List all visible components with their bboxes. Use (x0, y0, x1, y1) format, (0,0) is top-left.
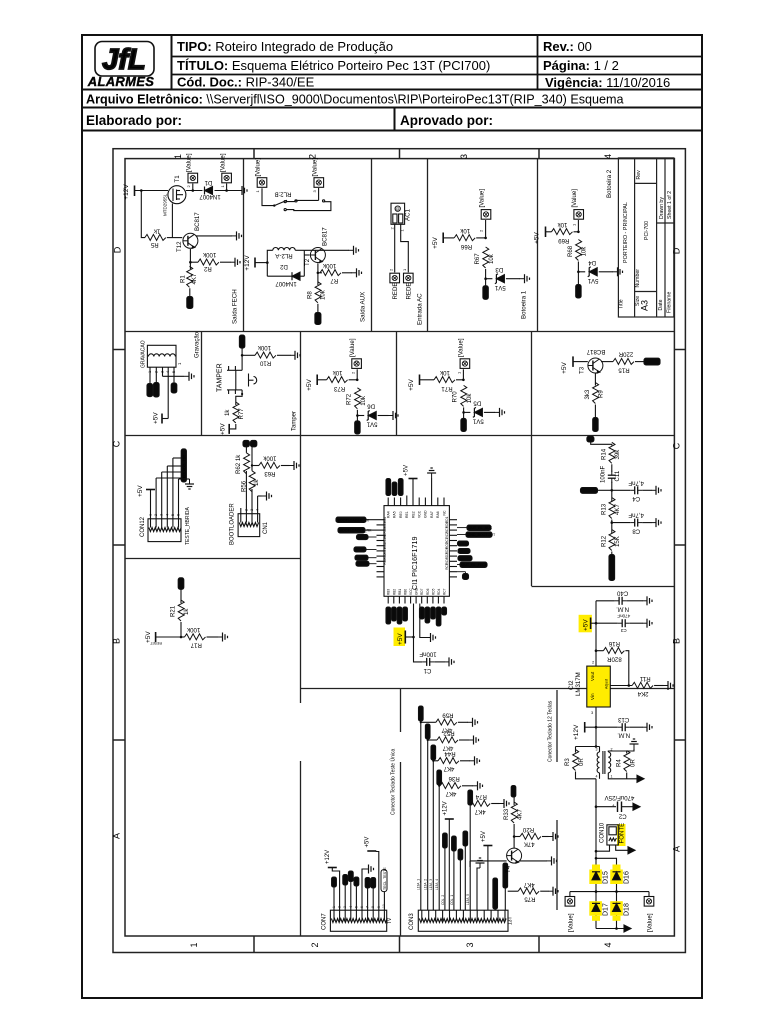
wire R8 to net label (317, 304, 319, 313)
wire emitter to ground (520, 860, 548, 862)
svg-text:R59: R59 (442, 712, 454, 719)
svg-text:BOOTLOADER_TX: BOOTLOADER_TX (338, 518, 370, 522)
svg-text:+5V: +5V (481, 831, 487, 842)
connector CON12 (140, 516, 181, 541)
left pin stubs (377, 520, 385, 577)
svg-text:[Value]: [Value] (312, 158, 319, 177)
zone numbers top (112, 154, 682, 948)
svg-text:100nF: 100nF (600, 465, 607, 483)
power +5V flag (561, 356, 573, 373)
transformer T (596, 747, 638, 779)
schematic title block (rotated A3 sheet) (618, 158, 673, 317)
connector CON3 (409, 910, 514, 931)
pin9 wire to +5V (365, 837, 379, 911)
svg-text:0R: 0R (578, 758, 585, 766)
svg-text:R77: R77 (238, 408, 245, 420)
right pin names (445, 516, 449, 569)
svg-text:TV: TV (387, 917, 393, 924)
svg-text:Adjust: Adjust (605, 679, 609, 689)
svg-text:C1: C1 (423, 667, 431, 674)
svg-text:2: 2 (154, 514, 158, 516)
svg-text:[Value]: [Value] (255, 158, 262, 177)
bottom pin stubs (388, 596, 444, 603)
net arrow (624, 925, 631, 932)
connector pin [Value] (255, 158, 267, 193)
svg-text:470uF/25V: 470uF/25V (604, 794, 635, 801)
svg-text:1k: 1k (183, 608, 190, 615)
svg-text:R17: R17 (190, 642, 202, 649)
svg-text:10k: 10k (360, 395, 367, 406)
svg-text:R68: R68 (567, 245, 574, 257)
svg-text:Cód. Doc.: RIP-340/EE: Cód. Doc.: RIP-340/EE (177, 75, 315, 90)
svg-text:RD5: RD5 (431, 588, 435, 595)
svg-text:R21: R21 (170, 605, 177, 617)
outer document border (82, 35, 702, 998)
resistor R2 100k (198, 251, 219, 272)
net label small (243, 440, 249, 446)
wire to junction (476, 237, 485, 239)
svg-text:CN1: CN1 (263, 521, 269, 534)
svg-text:REDE: REDE (392, 283, 399, 300)
ground (290, 351, 300, 360)
svg-text:R33: R33 (503, 808, 510, 820)
svg-text:OUT_RL_AUX: OUT_RL_AUX (469, 526, 493, 530)
svg-text:RB3: RB3 (383, 558, 387, 564)
svg-text:TECLADO_TST: TECLADO_TST (182, 454, 186, 481)
svg-text:RA6: RA6 (436, 511, 440, 518)
svg-text:R74: R74 (475, 793, 487, 800)
left pin names (383, 517, 387, 565)
wire coil to T2 base (303, 250, 305, 276)
resistor R67 10k (474, 247, 495, 268)
pin stubs (240, 508, 242, 514)
svg-text:LM317M: LM317M (575, 672, 582, 696)
svg-text:B: B (672, 638, 682, 644)
svg-text:+12V: +12V (244, 255, 251, 271)
resistor R56 1k (241, 471, 260, 492)
resistor R59 4K7 (420, 712, 478, 734)
svg-text:R11: R11 (639, 675, 650, 682)
relay coil RL2-A (267, 248, 304, 277)
diode D16 (highlighted) (610, 865, 630, 885)
wire pin4 to ground (258, 495, 262, 497)
svg-text:4,7nF: 4,7nF (628, 512, 644, 519)
svg-text:T3: T3 (579, 366, 586, 374)
svg-text:3: 3 (465, 942, 475, 947)
connector pin [Value] (349, 338, 361, 368)
svg-text:Botoeira 1: Botoeira 1 (521, 290, 528, 319)
svg-text:RD6: RD6 (426, 588, 430, 595)
capacitor C3 470nF (596, 613, 630, 633)
svg-text:100k: 100k (257, 344, 271, 351)
svg-text:JfL: JfL (102, 44, 146, 76)
wire collector rail to ground (304, 249, 349, 251)
ground (520, 274, 530, 283)
zener D5 5V1 (472, 400, 483, 425)
power +5V yellow highlight flag (394, 628, 406, 647)
svg-text:R1: R1 (179, 275, 186, 283)
resistor R52 4K7 (427, 729, 479, 751)
svg-text:R2: R2 (203, 265, 211, 272)
svg-text:FONTE: FONTE (619, 823, 626, 844)
svg-text:4: 4 (603, 942, 613, 947)
svg-text:B: B (112, 638, 122, 644)
svg-text:R10: R10 (259, 360, 271, 367)
svg-text:D5: D5 (473, 400, 481, 407)
svg-text:4K7: 4K7 (445, 790, 456, 797)
connector pin [Value] (312, 158, 324, 193)
wire pin1 + net label (417, 706, 424, 910)
svg-text:+5V: +5V (306, 378, 313, 390)
power +5V yellow flag (579, 615, 596, 633)
svg-text:D4: D4 (588, 259, 596, 266)
net label BOOTLOADER_TX (336, 517, 377, 522)
ground (230, 258, 240, 267)
svg-text:TAMPER: TAMPER (217, 363, 224, 392)
svg-text:Aprovado por:: Aprovado por: (400, 113, 493, 128)
svg-text:CON12: CON12 (140, 516, 146, 537)
wire main rail (595, 601, 597, 666)
svg-text:R15: R15 (618, 367, 630, 374)
connector pin REDE (402, 268, 413, 300)
svg-text:RB3: RB3 (387, 589, 391, 595)
svg-text:+5V: +5V (403, 464, 410, 476)
svg-text:R71: R71 (441, 385, 453, 392)
svg-text:Conector Teclado 12 Teclas: Conector Teclado 12 Teclas (548, 700, 554, 762)
zone ticks right (674, 349, 685, 351)
power +5V flag (306, 375, 317, 391)
ground (444, 657, 454, 666)
ground (651, 518, 661, 527)
wire pin3 to ground (163, 375, 185, 377)
svg-text:Sheet 1 of 2: Sheet 1 of 2 (667, 191, 673, 219)
pin1 wire + net label (332, 877, 337, 910)
svg-text:6: 6 (177, 514, 181, 516)
svg-text:1N4007: 1N4007 (275, 280, 297, 287)
net label (461, 418, 466, 431)
svg-text:D6: D6 (367, 403, 375, 410)
svg-text:RB1: RB1 (398, 589, 402, 595)
svg-text:2: 2 (154, 371, 158, 373)
resistor R9 3k3 (584, 383, 605, 404)
resistor R7 100k (320, 262, 341, 284)
resistor R66 10k (454, 227, 475, 250)
connector pin [Value] (479, 189, 491, 220)
svg-text:R5: R5 (150, 241, 158, 248)
svg-text:4K7: 4K7 (191, 273, 198, 284)
net label F (587, 436, 594, 442)
resistor R17 100k (185, 626, 206, 649)
svg-text:R4: R4 (615, 759, 622, 767)
ground (184, 372, 194, 381)
resistor R14 39k (600, 442, 621, 463)
svg-text:C4: C4 (632, 495, 640, 502)
svg-text:C2: C2 (618, 813, 626, 820)
zener D4 5V1 (587, 259, 598, 284)
svg-text:[Value]: [Value] (646, 913, 653, 932)
wire pin2 + net label (424, 724, 431, 910)
diode D15 (highlighted) (589, 865, 609, 885)
wire collector to ground (196, 235, 232, 237)
resistor R62 1k (235, 453, 249, 474)
svg-text:100k: 100k (322, 262, 336, 269)
capacitor C8 4,7nF (628, 512, 644, 535)
diode D2 1N4007 (267, 263, 304, 287)
resistor R69 10k (552, 221, 573, 244)
svg-text:820R: 820R (607, 656, 622, 663)
pin numbers (332, 904, 386, 908)
wire +5V to VCC rail (405, 636, 413, 638)
svg-text:2K4: 2K4 (637, 690, 648, 697)
svg-text:100nF: 100nF (419, 651, 437, 658)
svg-text:[Value]: [Value] (571, 189, 578, 208)
net label MISO (147, 384, 153, 397)
net label top (178, 578, 184, 590)
resistor R33 4K7 (503, 797, 524, 848)
resistor R68 10k (567, 240, 588, 261)
svg-text:TECL_TESTE: TECL_TESTE (383, 867, 387, 890)
bridge rails (595, 851, 597, 928)
svg-text:R69: R69 (558, 237, 570, 244)
svg-text:OUT_RL_FECH: OUT_RL_FECH (462, 563, 488, 567)
svg-text:1k: 1k (253, 479, 260, 486)
svg-text:+5V: +5V (137, 485, 144, 497)
relay contacts RL2:B (262, 188, 331, 211)
svg-text:100k: 100k (186, 626, 200, 633)
resistor R15 220R (613, 350, 634, 373)
net label BOT1 (483, 286, 488, 300)
svg-text:Tamper: Tamper (292, 411, 298, 431)
ground (349, 246, 359, 255)
svg-text:GND: GND (424, 510, 428, 518)
svg-text:RB2: RB2 (392, 589, 396, 595)
pin numbers (148, 371, 176, 373)
svg-text:4K7: 4K7 (443, 765, 454, 772)
svg-text:R67: R67 (474, 253, 481, 265)
wire VCC rail (414, 604, 423, 662)
svg-text:[Value]: [Value] (349, 338, 356, 357)
bottom net labels group B (420, 607, 425, 619)
svg-text:RE2: RE2 (411, 511, 415, 518)
left net labels (336, 517, 377, 566)
svg-text:R44: R44 (444, 750, 456, 757)
wire emitter node (317, 263, 319, 285)
svg-text:D18: D18 (623, 903, 630, 916)
svg-text:+5V: +5V (534, 231, 541, 243)
wire (180, 589, 182, 603)
svg-text:A: A (112, 833, 122, 839)
resistor R13 4K7 (600, 498, 621, 519)
svg-text:10k: 10k (581, 246, 588, 257)
connector pin [Value] left (565, 892, 575, 932)
net label (457, 562, 488, 567)
net label BUZZER (644, 358, 660, 365)
net label tall (609, 555, 615, 581)
net label boxes above (386, 479, 391, 496)
svg-text:5V1: 5V1 (472, 418, 483, 425)
wires from connector pins (149, 367, 151, 383)
svg-text:[Value]: [Value] (458, 338, 465, 357)
wire pin10 + net label (463, 831, 468, 910)
wires to label (156, 477, 181, 479)
svg-text:PCI-700: PCI-700 (644, 221, 650, 240)
wire AC1 pin1 to REDE (401, 224, 409, 272)
connector AC1 (390, 203, 412, 231)
svg-text:10k: 10k (320, 289, 327, 300)
svg-text:L13A_1: L13A_1 (417, 879, 421, 890)
top pin names (387, 510, 447, 518)
power +5V flag (408, 375, 419, 391)
zener D3 5V1 (494, 266, 505, 291)
net label GND_BOOT (457, 532, 496, 537)
wire junction to connector (485, 220, 487, 238)
svg-text:VCC: VCC (409, 588, 413, 595)
wire MOSFET gate down (171, 204, 173, 238)
svg-text:RA7: RA7 (430, 511, 434, 518)
svg-text:Arquivo Eletrônico: \\Serverjf: Arquivo Eletrônico: \\Serverjfl\ISO_9000… (86, 93, 624, 107)
resistor R12 15K (600, 530, 621, 551)
svg-text:R52: R52 (443, 729, 455, 736)
ground (426, 633, 436, 642)
wire base left (470, 860, 507, 862)
svg-text:C: C (112, 440, 122, 447)
svg-text:G: G (395, 206, 400, 210)
svg-text:Conector Teclado Teste Única: Conector Teclado Teste Única (390, 749, 397, 815)
svg-text:RA5: RA5 (393, 511, 397, 518)
wire pin9 + net label (466, 790, 473, 910)
svg-text:GND_BOOTOUT: GND_BOOTOUT (468, 533, 496, 537)
ground (642, 619, 652, 628)
svg-text:+12V: +12V (442, 801, 448, 815)
ground (663, 681, 673, 690)
svg-text:R63: R63 (264, 470, 276, 477)
svg-text:D15: D15 (603, 871, 610, 884)
svg-text:D: D (672, 247, 682, 254)
power +5V flag (137, 485, 155, 497)
svg-text:AC1: AC1 (405, 209, 412, 221)
svg-text:4: 4 (256, 509, 260, 511)
JFL logo (87, 42, 154, 90)
svg-text:4: 4 (596, 775, 598, 779)
svg-text:Vout: Vout (590, 671, 595, 681)
svg-text:BOOTLOADER_RX: BOOTLOADER_RX (340, 529, 373, 533)
svg-text:+5V: +5V (153, 412, 160, 424)
wire collector to R15 (600, 360, 602, 363)
svg-text:5: 5 (172, 371, 176, 373)
svg-text:RD4: RD4 (437, 588, 441, 595)
svg-text:R72: R72 (346, 393, 353, 405)
wire to R5 (141, 191, 145, 238)
net label BOT2 (576, 285, 581, 299)
svg-text:RESET: RESET (149, 641, 162, 645)
svg-text:RE0: RE0 (399, 511, 403, 518)
resistor R77 1k (224, 402, 245, 423)
node transformer top (595, 745, 598, 748)
net label small (457, 572, 469, 580)
ground (352, 268, 362, 277)
diode D18 (highlighted) (610, 901, 630, 921)
node (577, 262, 579, 286)
svg-text:4,7nF: 4,7nF (628, 479, 644, 486)
power +5V flag (534, 227, 546, 244)
net arrow (637, 775, 644, 782)
svg-text:[Value]: [Value] (567, 913, 574, 932)
header grid lines (82, 89, 702, 91)
wire pin8 + net label small (458, 849, 463, 910)
svg-text:R14: R14 (600, 448, 607, 460)
svg-text:D16: D16 (623, 871, 630, 884)
connector pin [Value] (571, 189, 583, 220)
wire RE1 up (406, 496, 408, 498)
svg-text:R9: R9 (598, 390, 605, 398)
svg-text:D: D (113, 246, 123, 253)
svg-text:R70: R70 (452, 391, 459, 403)
svg-text:GRAVACAO: GRAVACAO (141, 340, 147, 368)
svg-text:CON3: CON3 (409, 913, 415, 930)
ground (262, 492, 272, 501)
svg-text:T12: T12 (176, 241, 183, 252)
connector pin [Value] (219, 153, 231, 187)
power +5V flag (432, 233, 443, 249)
connector pin [Value] (458, 338, 470, 368)
svg-text:1N4007: 1N4007 (199, 193, 221, 200)
pin3 wire + net label (343, 875, 348, 911)
svg-text:100k: 100k (202, 251, 216, 258)
connector pin [Value] (186, 153, 198, 187)
wire pin13 + tall net label (503, 863, 508, 910)
svg-text:10k: 10k (557, 221, 568, 228)
wire pin6 + net label (441, 833, 447, 910)
svg-text:5V1: 5V1 (587, 277, 598, 284)
bottom pin names (387, 587, 447, 595)
wire pin4 + net label (435, 770, 442, 910)
svg-text:R16: R16 (608, 640, 620, 647)
transistor T12 BC817 (176, 212, 201, 252)
resistor R1 4K7 (179, 266, 198, 287)
svg-text:R66: R66 (460, 243, 472, 250)
ground (185, 479, 194, 489)
svg-text:+12V: +12V (325, 850, 331, 864)
svg-text:1: 1 (611, 775, 613, 779)
svg-text:Página: 1 / 2: Página: 1 / 2 (543, 58, 619, 73)
svg-text:A3: A3 (640, 300, 650, 311)
resistor R3 0R (564, 747, 596, 779)
diode D1 1N4007 (199, 179, 221, 200)
svg-text:4: 4 (603, 154, 613, 159)
svg-text:+5V: +5V (365, 837, 371, 848)
net label top (511, 786, 516, 798)
node (463, 407, 465, 419)
power +5V flag (220, 423, 230, 435)
resistor R8 10k (307, 282, 327, 303)
wire to junction (574, 231, 579, 233)
svg-text:D3: D3 (495, 266, 503, 273)
ground (289, 461, 299, 470)
svg-text:Botoeira 2: Botoeira 2 (606, 169, 613, 198)
zener D6 5V1 (366, 403, 377, 428)
ground (232, 231, 242, 240)
svg-text:C3: C3 (620, 628, 626, 633)
block boundary lines (125, 158, 674, 936)
capacitor C11 100nF (600, 465, 622, 483)
svg-text:BOOTLOADER: BOOTLOADER (230, 503, 236, 545)
net label FECH (187, 297, 193, 309)
svg-text:TIPO: Roteiro Integrado de Pr: TIPO: Roteiro Integrado de Produção (177, 39, 393, 54)
net label (593, 418, 598, 432)
svg-text:R8: R8 (307, 291, 314, 299)
wire to C8 (612, 522, 630, 524)
svg-text:T1: T1 (174, 175, 181, 183)
